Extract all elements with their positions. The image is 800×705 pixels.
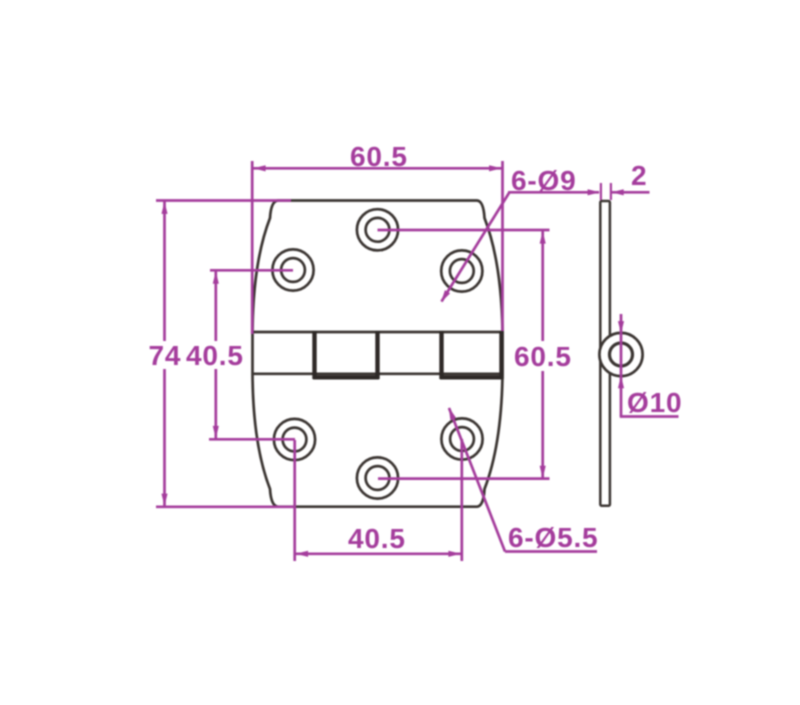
hole top-right outer: [441, 250, 482, 291]
svg-text:74: 74: [149, 340, 182, 371]
hole top-left inner: [281, 258, 305, 282]
label 6-O9 leader: [442, 193, 510, 302]
knuckle divider 3: [439, 331, 443, 379]
dim O10 arrow down at top tangent: [618, 321, 624, 333]
dim 60.5 top line: [252, 167, 502, 170]
hole bottom-right inner: [450, 427, 474, 451]
svg-text:40.5: 40.5: [348, 523, 406, 554]
side view plate: [600, 201, 610, 506]
label 6-O9 underline merging into dim 2 left arrow line: [508, 191, 599, 194]
knuckle thick bottom segment A: [313, 375, 379, 379]
dim 40.5 bottom right extension line: [460, 439, 463, 561]
side view barrel outer: [599, 333, 642, 376]
dim 60.5 right top leader: [378, 229, 550, 232]
dim O10 through line: [620, 333, 623, 376]
dim 60.5 right bottom leader: [378, 477, 550, 480]
hole bottom-left inner: [283, 428, 307, 452]
dim 74 arrow down: [161, 494, 167, 506]
hole top-middle inner: [366, 218, 390, 242]
dim 74 arrow up: [161, 202, 167, 214]
dim 40.5 bottom arrow left: [296, 551, 308, 557]
dim 2 right tick: [610, 183, 612, 200]
label 6-O5.5 leader: [449, 408, 505, 552]
hinge front view outline: [253, 201, 503, 507]
dim 60.5 right arrow down: [540, 466, 546, 478]
dim 74 line: [163, 201, 166, 341]
label 6-O5.5 leader arrow: [446, 406, 456, 420]
knuckle band top line: [253, 331, 503, 334]
dim 2 left tick: [600, 183, 602, 200]
dim 60.5 top arrow right: [489, 165, 501, 171]
hole top-middle outer: [357, 209, 398, 250]
dim 74 bottom extension line: [156, 505, 294, 508]
svg-text:60.5: 60.5: [350, 141, 408, 172]
hole bottom-left outer: [274, 419, 315, 460]
dim 40.5 left line: [214, 271, 217, 341]
dim 40.5 bottom left extension line: [293, 440, 296, 561]
hole bottom-middle inner: [366, 466, 390, 490]
svg-text:Ø10: Ø10: [627, 387, 682, 418]
dim 40.5 bottom line: [295, 552, 462, 555]
svg-text:40.5: 40.5: [186, 340, 244, 371]
dim 40.5 left top leader: [210, 269, 293, 272]
dim 40.5 left arrow down: [213, 426, 219, 438]
dim 60.5 right arrow up: [540, 231, 546, 243]
hole top-left outer: [272, 249, 313, 290]
svg-text:2: 2: [631, 160, 647, 191]
dim 60.5 top left extension line: [251, 161, 254, 334]
svg-text:6-Ø5.5: 6-Ø5.5: [508, 522, 598, 553]
dim 40.5 bottom arrow right: [448, 551, 460, 557]
knuckle divider 2: [375, 331, 379, 379]
dim 74 top extension line: [156, 199, 291, 202]
hole bottom-right outer: [441, 418, 482, 459]
side view barrel inner (pin): [610, 343, 633, 366]
hole bottom-middle outer: [357, 457, 398, 498]
dim O10 upper line: [620, 314, 623, 334]
dim 40.5 left arrow up: [213, 271, 219, 283]
knuckle divider 4 (right edge): [499, 331, 503, 379]
svg-text:6-Ø9: 6-Ø9: [511, 165, 576, 196]
dim 2 right outside arrow: [611, 189, 623, 195]
label 6-O5.5 underline: [505, 550, 597, 553]
knuckle band bottom line: [253, 372, 503, 375]
dim 60.5 top arrow left: [253, 165, 265, 171]
dim 60.5 top right extension line: [501, 161, 504, 331]
label O10 underline: [620, 415, 679, 418]
dim 60.5 right line: [541, 231, 544, 341]
knuckle thick bottom segment B: [440, 375, 503, 379]
dim O10 arrow up at bottom tangent: [618, 376, 624, 388]
hole top-right inner: [450, 259, 474, 283]
label 6-O9 leader arrow: [438, 290, 450, 304]
knuckle divider 1: [312, 331, 316, 379]
dim 2 left outside arrow: [588, 189, 600, 195]
dim O10 lower line to underline: [620, 376, 623, 417]
svg-text:60.5: 60.5: [514, 341, 572, 372]
dim 2 right line: [611, 191, 650, 194]
dim 40.5 left bottom leader: [209, 438, 295, 441]
